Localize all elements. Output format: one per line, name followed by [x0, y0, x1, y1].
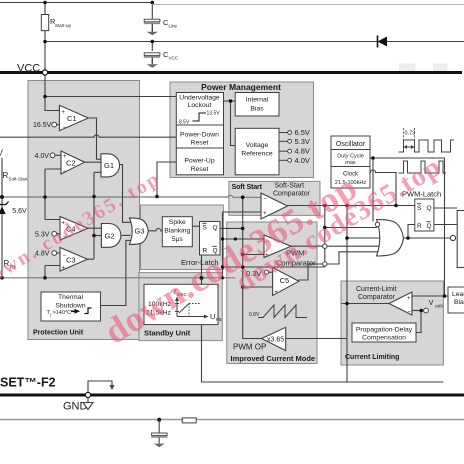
svg-text:Blanking: Blanking: [164, 228, 190, 235]
svg-text:13.5V: 13.5V: [207, 111, 221, 117]
svg-text:FB: FB: [216, 317, 222, 322]
svg-text:j: j: [49, 313, 51, 317]
svg-text:Q: Q: [213, 225, 218, 232]
svg-text:+: +: [63, 154, 67, 160]
svg-text:Q: Q: [427, 223, 432, 230]
svg-text:Compensation: Compensation: [362, 335, 406, 342]
svg-text:0.73: 0.73: [405, 131, 416, 137]
svg-text:Soft-Start: Soft-Start: [9, 177, 29, 182]
svg-text:4.0V: 4.0V: [35, 153, 50, 160]
svg-text:4.0V: 4.0V: [295, 156, 310, 165]
svg-text:Improved Current Mode: Improved Current Mode: [231, 354, 316, 363]
svg-text:R: R: [417, 223, 422, 230]
svg-text:−: −: [63, 125, 67, 131]
svg-text:Blank: Blank: [454, 299, 464, 306]
svg-text:C2: C2: [66, 159, 76, 168]
svg-text:−: −: [408, 310, 412, 316]
svg-text:max: max: [345, 160, 356, 166]
svg-text:Shutdown: Shutdown: [55, 303, 85, 310]
svg-text:Reset: Reset: [191, 166, 209, 173]
svg-text:6.5V: 6.5V: [295, 128, 310, 137]
svg-text:Line: Line: [169, 24, 178, 29]
svg-text:+: +: [62, 110, 66, 116]
svg-text:Soft Start: Soft Start: [232, 182, 263, 191]
svg-text:Current Limiting: Current Limiting: [345, 354, 399, 361]
svg-text:G1: G1: [104, 161, 114, 170]
svg-text:V: V: [429, 300, 434, 307]
svg-text:Q: Q: [427, 205, 432, 212]
svg-text:Undervoltage: Undervoltage: [179, 95, 220, 102]
svg-text:>140°C: >140°C: [53, 310, 72, 316]
svg-text:Soft-Start: Soft-Start: [275, 183, 305, 190]
svg-text:Power-Down: Power-Down: [180, 132, 219, 139]
svg-text:C5: C5: [280, 276, 290, 285]
svg-text:8.5V: 8.5V: [179, 120, 190, 126]
svg-text:Propagation-Delay: Propagation-Delay: [356, 327, 413, 334]
svg-text:csth: csth: [435, 304, 444, 309]
svg-text:Duty Cycle: Duty Cycle: [337, 154, 364, 160]
svg-text:Current-Limit: Current-Limit: [356, 286, 397, 293]
svg-text:+: +: [62, 266, 66, 272]
svg-text:G3: G3: [135, 227, 145, 236]
svg-text:U: U: [210, 312, 215, 321]
svg-text:+: +: [407, 296, 411, 302]
svg-text:Comparator: Comparator: [358, 294, 396, 301]
svg-text:x3.65: x3.65: [267, 337, 284, 344]
svg-text:16.5V: 16.5V: [33, 122, 52, 129]
svg-text:5.6V: 5.6V: [12, 208, 27, 215]
svg-text:Leading: Leading: [452, 291, 464, 298]
svg-text:Reference: Reference: [241, 151, 273, 158]
svg-text:Thermal: Thermal: [58, 294, 83, 301]
svg-text:G2: G2: [105, 232, 115, 241]
svg-text:VCC: VCC: [169, 56, 179, 61]
svg-text:C1: C1: [67, 114, 77, 123]
svg-text:Voltage: Voltage: [246, 142, 269, 149]
svg-text:−: −: [264, 197, 268, 203]
svg-text:Spike: Spike: [169, 219, 186, 226]
svg-text:5.3V: 5.3V: [295, 137, 310, 146]
svg-text:4.8V: 4.8V: [295, 147, 310, 156]
svg-text:SET™-F2: SET™-F2: [0, 376, 56, 390]
svg-text:VCC: VCC: [17, 63, 40, 75]
svg-text:Bias: Bias: [250, 106, 264, 113]
svg-text:Internal: Internal: [246, 97, 269, 104]
svg-text:PWM OP: PWM OP: [233, 343, 266, 352]
svg-text:Start-up: Start-up: [55, 23, 72, 28]
svg-text:Power Management: Power Management: [201, 82, 281, 92]
svg-text:5μs: 5μs: [172, 236, 184, 243]
svg-text:−: −: [63, 253, 67, 259]
svg-text:S: S: [203, 225, 208, 232]
svg-text:−: −: [63, 169, 67, 175]
svg-text:Lockout: Lockout: [188, 102, 212, 109]
svg-text:Reset: Reset: [191, 140, 209, 147]
svg-text:Oscillator: Oscillator: [336, 141, 366, 148]
svg-text:Power-Up: Power-Up: [184, 158, 214, 165]
svg-text:C3: C3: [66, 256, 76, 265]
svg-text:S: S: [417, 205, 422, 212]
svg-text:+: +: [274, 290, 278, 296]
svg-text:Protection Unit: Protection Unit: [33, 330, 84, 337]
